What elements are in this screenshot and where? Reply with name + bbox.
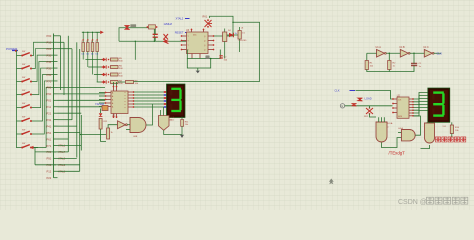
diode D5 <box>97 80 110 84</box>
svg-text:P91: P91 <box>47 157 52 161</box>
svg-text:/TExdgT: /TExdgT <box>389 151 406 156</box>
wire <box>414 116 421 135</box>
svg-text:a: a <box>125 104 126 106</box>
svg-text:a: a <box>125 101 126 103</box>
diode D5 <box>227 33 241 38</box>
svg-text:P90: P90 <box>47 92 52 96</box>
wire <box>146 104 153 125</box>
resistor R6 <box>111 66 124 71</box>
label CLK in <box>335 89 356 93</box>
watermark CSDN <box>398 197 468 206</box>
svg-text:P61: P61 <box>47 137 52 141</box>
ground arrow <box>30 146 38 149</box>
junction <box>413 53 414 54</box>
svg-text:a: a <box>125 98 126 100</box>
switch SW2 <box>17 64 33 69</box>
resistor R12 <box>99 119 108 142</box>
svg-text:U6B: U6B <box>133 136 138 138</box>
svg-text:P11: P11 <box>47 105 52 109</box>
potentiometer RV1 <box>203 16 213 28</box>
wire <box>414 93 428 116</box>
svg-text:P00: P00 <box>47 34 52 38</box>
wire <box>118 81 126 83</box>
svg-text:SW: SW <box>22 77 25 79</box>
svg-text:SW: SW <box>22 64 25 66</box>
terminal G <box>340 104 344 108</box>
wire <box>134 41 136 60</box>
and gate U6B <box>126 118 146 139</box>
junction <box>87 32 88 33</box>
7-segment display DS2 <box>428 88 450 122</box>
inverter U6A <box>118 121 128 129</box>
wire <box>164 126 182 134</box>
label XTAL2 <box>176 17 190 21</box>
switch SW1 <box>17 51 33 56</box>
svg-text:P21: P21 <box>47 112 52 116</box>
wire <box>210 16 234 36</box>
switch SW8 <box>17 143 33 148</box>
svg-text:P80: P80 <box>47 86 52 90</box>
buffer U7A <box>159 107 176 130</box>
svg-text:U1:B: U1:B <box>399 46 405 49</box>
svg-text:P20: P20 <box>47 47 52 51</box>
wire <box>53 34 55 178</box>
junction <box>210 58 212 60</box>
resistor RP4 <box>95 32 98 82</box>
diode D5 <box>358 98 363 101</box>
capacitor C2 <box>219 56 228 62</box>
wire <box>119 28 149 42</box>
capacitor C1 <box>411 62 422 69</box>
svg-text:P40: P40 <box>47 60 52 64</box>
wire <box>356 91 393 100</box>
svg-text:CLK: CLK <box>335 89 340 93</box>
svg-text:1k: 1k <box>111 132 113 134</box>
junction <box>135 41 136 42</box>
svg-text:P12: P12 <box>47 170 52 174</box>
label RST <box>175 31 192 35</box>
wire <box>32 42 54 147</box>
svg-text:U1:C: U1:C <box>423 46 429 49</box>
svg-text:LOAD: LOAD <box>365 97 372 101</box>
diode D2 <box>85 58 109 62</box>
diode D10 <box>99 109 103 117</box>
svg-text:P70: P70 <box>47 79 52 83</box>
connector J1 pin labels <box>47 34 52 180</box>
resistor R14 <box>450 122 459 137</box>
resistor R5 <box>111 58 124 63</box>
text countdown-circuit <box>436 137 466 142</box>
IC U3 555 <box>181 29 215 59</box>
resistor RP2 <box>86 32 89 67</box>
resistor R9 <box>126 81 139 86</box>
svg-text:RESET: RESET <box>175 31 184 35</box>
svg-text:U3:A: U3:A <box>388 122 393 125</box>
junction <box>232 22 233 23</box>
diode D6 <box>352 104 357 107</box>
wire <box>35 148 56 165</box>
svg-text:XTAL0: XTAL0 <box>58 170 66 173</box>
junction <box>80 134 81 135</box>
diode D1 <box>125 26 130 30</box>
marker cursor <box>329 179 334 185</box>
svg-text:10k: 10k <box>86 53 89 55</box>
inverter U1:B <box>399 46 410 57</box>
inverter U1:C <box>423 46 434 57</box>
svg-text:4026: 4026 <box>398 116 402 118</box>
wire <box>367 52 441 54</box>
and gate U4:A <box>398 127 415 141</box>
wire <box>16 51 18 149</box>
wire <box>187 59 210 69</box>
svg-text:P51: P51 <box>47 131 52 135</box>
svg-text:SW: SW <box>22 117 25 119</box>
switch SW7 <box>17 130 33 135</box>
svg-text:10k: 10k <box>81 53 84 55</box>
svg-text:P30: P30 <box>47 53 52 57</box>
svg-text:SW: SW <box>22 90 25 92</box>
svg-text:U4: U4 <box>241 28 243 30</box>
resistor R13 <box>107 128 113 139</box>
ground <box>196 68 200 73</box>
svg-text:10k: 10k <box>91 53 94 55</box>
resistor R11 <box>181 117 190 127</box>
display pin pads <box>164 91 167 108</box>
wire <box>187 50 220 59</box>
svg-text:P50: P50 <box>47 66 52 70</box>
svg-text:CLK: CLK <box>437 52 443 56</box>
svg-text:LED-RED: LED-RED <box>239 40 248 42</box>
nand gate U3:B <box>425 122 435 143</box>
inverter U1:A <box>376 46 387 57</box>
connector J1 lower pin labels <box>58 145 66 174</box>
svg-text:U7:A: U7:A <box>170 116 175 119</box>
svg-text:10k: 10k <box>95 53 98 55</box>
svg-text:RV1: RV1 <box>203 16 208 19</box>
svg-text:SW: SW <box>22 143 25 145</box>
svg-text:SW: SW <box>22 51 25 53</box>
switch SW6 <box>17 117 33 122</box>
IC U5 74LS48 <box>105 86 135 119</box>
wire <box>99 93 105 107</box>
wire <box>367 68 414 72</box>
capacitor C3 <box>153 29 158 41</box>
wire <box>119 40 187 42</box>
svg-text:P60: P60 <box>47 73 52 77</box>
svg-text:P31: P31 <box>47 118 52 122</box>
crystal X2 <box>102 106 108 111</box>
wire <box>382 132 402 147</box>
capacitor C2 <box>147 25 158 42</box>
svg-text:CSDN @: CSDN @ <box>398 199 427 206</box>
junction <box>92 32 93 33</box>
led D1 <box>238 27 247 52</box>
svg-text:a: a <box>125 107 126 109</box>
power arrow VCC <box>96 31 104 34</box>
wire <box>54 36 58 178</box>
junction <box>83 32 84 33</box>
svg-text:XTAL2: XTAL2 <box>176 17 184 21</box>
svg-text:P22: P22 <box>47 176 52 180</box>
svg-text:P10: P10 <box>47 41 52 45</box>
switch SW3 <box>17 77 33 82</box>
IC U2 4026 <box>392 97 414 118</box>
svg-text:SW: SW <box>22 103 25 105</box>
wire <box>134 92 164 107</box>
resistor R8 <box>111 81 124 86</box>
resistor R7 <box>111 73 124 78</box>
diode D3 <box>163 39 169 44</box>
svg-text:a: a <box>125 92 126 94</box>
switch SW5 <box>17 103 33 108</box>
svg-text:P41: P41 <box>47 124 52 128</box>
wire <box>80 125 117 135</box>
wire <box>367 53 414 61</box>
transistor Q1 <box>364 107 373 118</box>
wire <box>421 145 430 149</box>
capacitor C5 <box>206 56 209 59</box>
wire <box>370 106 377 117</box>
junction <box>389 53 390 54</box>
svg-text:P71: P71 <box>47 144 52 148</box>
switch SW4 <box>17 90 33 95</box>
svg-text:4011: 4011 <box>170 120 174 122</box>
svg-text:U5: U5 <box>112 114 116 118</box>
label <box>130 24 136 27</box>
svg-text:P01: P01 <box>47 99 52 103</box>
7-segment display DS1 <box>167 84 186 118</box>
diode D3 <box>88 65 109 69</box>
wire <box>114 82 117 86</box>
diode D4 <box>164 34 169 40</box>
diode D4 <box>94 73 109 77</box>
svg-text:U1:A: U1:A <box>376 46 382 49</box>
svg-text:a: a <box>125 95 126 97</box>
resistor R1b <box>388 61 396 70</box>
svg-text:SW: SW <box>22 130 25 132</box>
resistor R2 <box>223 29 232 59</box>
svg-text:12MHZ: 12MHZ <box>164 22 173 26</box>
wire <box>134 22 260 81</box>
resistor RP1 <box>81 32 84 59</box>
resistor RP3 <box>91 32 94 74</box>
wire <box>345 105 393 107</box>
wire <box>82 31 100 33</box>
svg-text:XTAL1: XTAL1 <box>58 145 66 148</box>
wire <box>58 36 106 172</box>
svg-text:G: G <box>341 105 343 108</box>
resistor R1a <box>365 61 374 70</box>
ground <box>180 135 184 138</box>
junction <box>154 41 155 42</box>
nand gate U3:A <box>376 117 393 142</box>
